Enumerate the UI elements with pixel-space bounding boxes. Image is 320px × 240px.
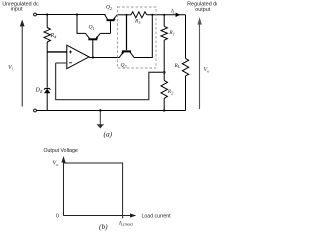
svg-text:(a): (a) bbox=[104, 130, 113, 139]
wire: feedback loop to op-amp inverting input bbox=[56, 63, 165, 100]
wire: Q1 emitter to Q2 base bbox=[100, 32, 110, 34]
svg-text:R4: R4 bbox=[50, 33, 58, 39]
resistor R2 bbox=[161, 72, 167, 110]
transistor Q1 bbox=[86, 33, 101, 57]
label Vo bbox=[204, 67, 211, 73]
svg-text:Load current: Load current bbox=[142, 213, 172, 219]
wire: Q1 collector to rail bbox=[77, 15, 86, 34]
label Q2 bbox=[106, 5, 112, 11]
op-amp U1 bbox=[47, 45, 89, 68]
label DZ bbox=[35, 88, 43, 94]
label IL bbox=[170, 8, 176, 14]
label (a) bbox=[104, 130, 113, 139]
svg-text:Vo: Vo bbox=[53, 161, 60, 167]
node: rail/R1 junction bbox=[163, 14, 165, 16]
svg-text:RL: RL bbox=[174, 63, 181, 69]
node: ground junction bbox=[99, 109, 101, 111]
op-amp + and - marks bbox=[69, 50, 72, 62]
graph y-axis bbox=[61, 156, 65, 216]
svg-text:DZ: DZ bbox=[35, 88, 43, 94]
svg-text:Q2: Q2 bbox=[106, 5, 112, 11]
wire: top rail right section bbox=[117, 14, 131, 16]
curve: regulation characteristic bbox=[64, 163, 123, 218]
label Vo on graph bbox=[53, 161, 60, 167]
zener diode DZ bbox=[44, 88, 50, 110]
svg-text:R2: R2 bbox=[167, 89, 174, 95]
annotation arrow Vo bbox=[197, 17, 201, 109]
resistor R1 bbox=[161, 15, 167, 73]
svg-text:0: 0 bbox=[56, 214, 59, 220]
label R2 bbox=[167, 89, 174, 95]
svg-text:output: output bbox=[195, 7, 210, 13]
svg-text:Output Voltage: Output Voltage bbox=[44, 148, 78, 154]
label: Regulated dc output bbox=[187, 2, 219, 13]
annotation arrow Vi bbox=[20, 20, 25, 107]
node: rail/R4 junction bbox=[46, 13, 48, 15]
svg-text:Q1: Q1 bbox=[89, 25, 95, 31]
node: Q1 base junction on output wire bbox=[92, 56, 94, 58]
resistor R4 bbox=[44, 15, 50, 88]
input terminal bbox=[34, 13, 37, 16]
label RL bbox=[174, 63, 181, 69]
transistor Q2 bbox=[105, 15, 118, 34]
label Vi bbox=[8, 65, 14, 71]
svg-text:input: input bbox=[11, 7, 23, 13]
svg-text:IL(max): IL(max) bbox=[118, 220, 134, 226]
node: rail/R3 right junction bbox=[151, 14, 153, 16]
label: Unregulated dc input bbox=[2, 1, 39, 12]
svg-text:Q3: Q3 bbox=[121, 63, 127, 69]
label Q3 bbox=[121, 63, 127, 69]
wire: top rail left section bbox=[37, 14, 106, 16]
label R4 bbox=[50, 33, 58, 39]
wire: op-amp output bbox=[89, 57, 120, 59]
transistor Q3 bbox=[119, 51, 134, 57]
svg-text:Vi: Vi bbox=[8, 65, 14, 71]
svg-text:R1: R1 bbox=[168, 30, 175, 36]
wire: Q3 emitter to R3 right end bbox=[134, 15, 152, 58]
svg-text:(b): (b) bbox=[99, 222, 108, 231]
svg-text:Vo: Vo bbox=[204, 67, 211, 73]
label Q1 bbox=[89, 25, 95, 31]
label R3 bbox=[134, 19, 141, 25]
node: rail/Q1 collector junction bbox=[76, 13, 78, 15]
resistor R3 bbox=[131, 12, 147, 18]
annotation arrow IL on rail bbox=[176, 13, 181, 17]
graph x-axis bbox=[64, 213, 137, 217]
output terminal bottom left bbox=[34, 109, 37, 112]
label IL(max) bbox=[118, 220, 134, 226]
node: R2 bottom junction bbox=[163, 109, 165, 111]
svg-text:IL: IL bbox=[170, 8, 176, 14]
dashed box (current-limit circuit) bbox=[118, 7, 157, 68]
node: R1/R2 feedback junction bbox=[163, 71, 166, 74]
svg-text:R3: R3 bbox=[134, 19, 141, 25]
node: rail/Q3 base junction bbox=[126, 14, 128, 16]
label (b) bbox=[99, 222, 108, 231]
label R1 bbox=[168, 30, 175, 36]
wire: Q3 base to rail bbox=[126, 15, 128, 50]
wire: bottom rail bbox=[37, 110, 186, 112]
ground symbol bbox=[97, 111, 104, 129]
resistor RL bbox=[182, 15, 188, 111]
